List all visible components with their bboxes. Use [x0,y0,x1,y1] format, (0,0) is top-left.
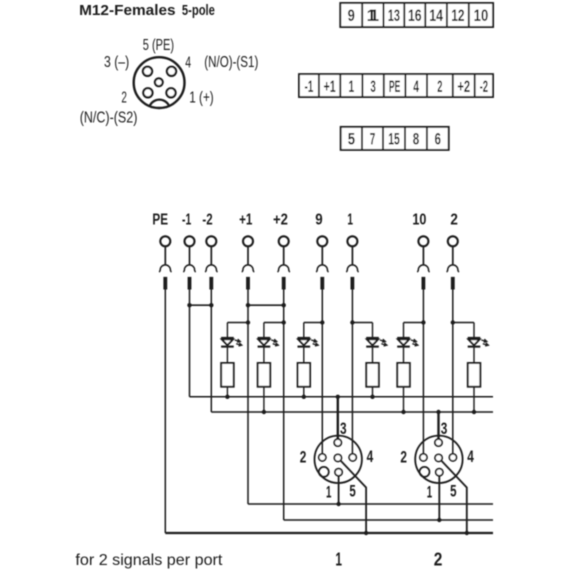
svg-text:2: 2 [300,448,307,466]
svg-text:2: 2 [400,448,407,466]
svg-text:+1: +1 [324,77,336,96]
svg-text:4: 4 [467,448,474,466]
svg-text:5-pole: 5-pole [182,3,215,19]
svg-text:16: 16 [408,6,422,25]
svg-text:12: 12 [451,6,464,25]
svg-text:3: 3 [370,77,376,96]
svg-text:1: 1 [347,212,353,229]
svg-text:15: 15 [388,130,400,149]
svg-text:for 2 signals per port: for 2 signals per port [75,552,223,569]
svg-text:5: 5 [349,483,355,501]
svg-text:M12-Females: M12-Females [79,3,176,19]
svg-text:14: 14 [429,6,443,25]
svg-text:3 (–): 3 (–) [104,54,129,71]
svg-text:9: 9 [315,212,322,229]
svg-text:2: 2 [437,77,442,96]
svg-text:8: 8 [413,130,420,149]
svg-text:PE: PE [389,77,401,96]
svg-text:+2: +2 [457,77,470,96]
svg-text:5: 5 [348,130,355,149]
svg-text:-2: -2 [480,77,489,96]
svg-text:1: 1 [326,483,331,501]
svg-text:-2: -2 [202,212,212,229]
svg-text:7: 7 [370,130,376,149]
svg-text:1: 1 [427,483,432,501]
svg-text:(N/C)-(S2): (N/C)-(S2) [80,109,138,126]
svg-text:4: 4 [367,448,374,466]
svg-text:1: 1 [335,550,342,570]
svg-text:1 (+): 1 (+) [189,89,213,106]
svg-text:2: 2 [434,550,443,570]
svg-text:+2: +2 [273,212,288,229]
svg-text:PE: PE [152,212,168,229]
svg-text:3: 3 [441,420,448,438]
svg-text:6: 6 [435,130,442,149]
svg-text:2: 2 [450,212,458,229]
svg-text:2: 2 [121,90,127,107]
svg-text:5: 5 [450,483,456,501]
svg-text:4: 4 [413,77,419,96]
svg-text:-1: -1 [304,77,313,96]
svg-text:10: 10 [474,6,489,25]
svg-text:4: 4 [185,55,191,72]
svg-text:11: 11 [367,6,380,25]
svg-text:+1: +1 [239,212,252,229]
svg-text:3: 3 [340,420,347,438]
svg-text:13: 13 [388,6,400,25]
svg-text:-1: -1 [182,212,191,229]
svg-text:1: 1 [349,77,355,96]
svg-text:9: 9 [348,6,355,25]
svg-text:(N/O)-(S1): (N/O)-(S1) [204,54,258,71]
svg-text:10: 10 [412,212,426,229]
svg-text:5 (PE): 5 (PE) [143,37,174,54]
